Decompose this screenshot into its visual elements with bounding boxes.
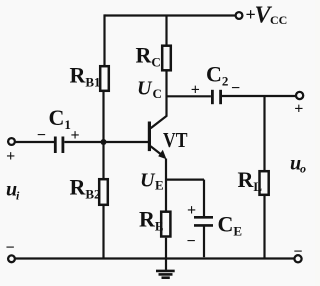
svg-text:−: − bbox=[5, 240, 14, 257]
svg-text:U: U bbox=[137, 78, 153, 100]
svg-text:VT: VT bbox=[163, 128, 188, 152]
svg-text:+: + bbox=[191, 81, 200, 98]
svg-text:C: C bbox=[153, 86, 162, 101]
svg-text:+: + bbox=[294, 101, 303, 118]
svg-text:U: U bbox=[140, 170, 156, 192]
svg-text:+: + bbox=[70, 127, 79, 144]
svg-text:−: − bbox=[186, 233, 195, 250]
svg-text:E: E bbox=[155, 178, 164, 193]
svg-text:−: − bbox=[37, 127, 46, 144]
svg-text:−: − bbox=[231, 80, 240, 97]
svg-text:o: o bbox=[300, 162, 306, 176]
svg-text:+: + bbox=[6, 148, 15, 165]
svg-text:−: − bbox=[293, 244, 302, 261]
svg-text:CC: CC bbox=[270, 13, 287, 27]
svg-text:+: + bbox=[187, 202, 196, 219]
